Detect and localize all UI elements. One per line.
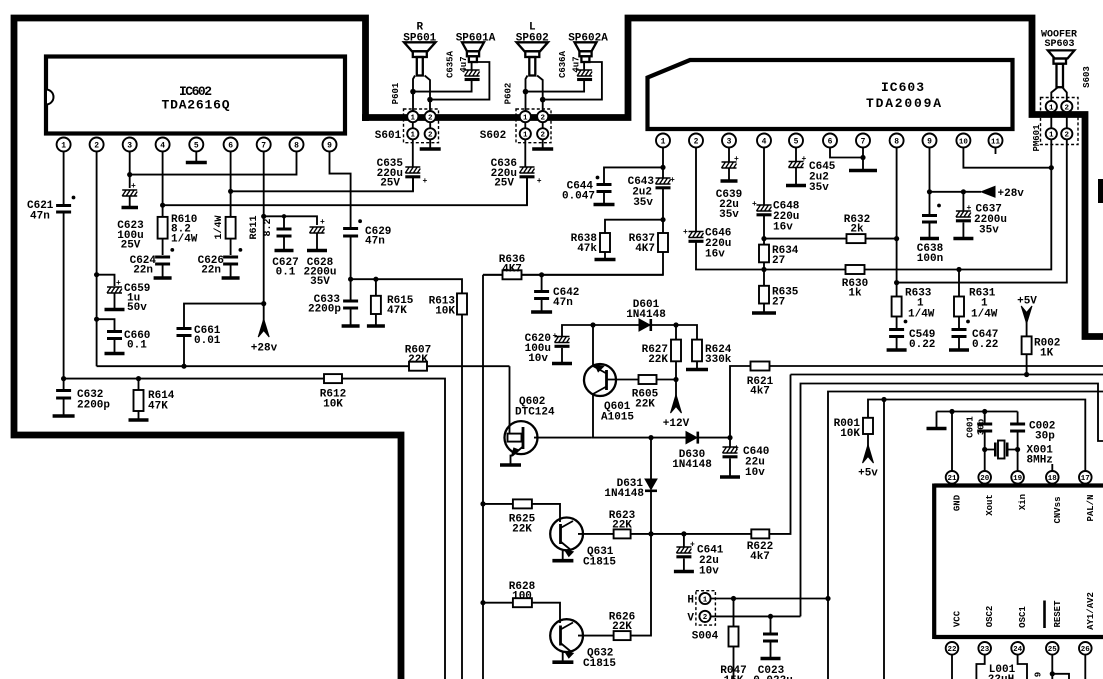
resistor R630 1k [842,265,868,300]
connector S004 [687,591,718,643]
pin 23 OSC2 [976,606,995,679]
wire lower bus C632 to x445 column [64,379,445,679]
pin 26 AY1/AV2 [1079,592,1096,679]
svg-text:22uH: 22uH [988,674,1014,679]
wire R613 column down to bottom [461,315,463,679]
resistor R628 100 [483,581,560,623]
capacitor C621 47n [27,196,75,223]
resistor R632 2k [764,214,897,243]
capacitor C647 0.22 [949,329,998,351]
connector S602 [480,128,549,142]
node C637 tap [961,189,966,194]
op-amp IC603 TDA2009A body [648,60,1013,129]
node SP602 lead taps [523,89,529,95]
wire R607 line from pin2 corner [97,365,510,367]
svg-text:22: 22 [947,646,957,654]
capacitor C023 0.022u [753,616,793,679]
svg-text:Xout: Xout [985,494,995,516]
svg-text:4K7: 4K7 [502,264,522,276]
pin 11 IC603 [989,134,1003,155]
svg-text:22K: 22K [648,354,668,366]
svg-text:2k: 2k [850,224,864,236]
svg-text:2: 2 [694,138,699,147]
wire pin5 to ground [195,152,197,162]
svg-text:C635A: C635A [446,50,456,78]
ground pin5 [186,161,207,165]
svg-text:22K: 22K [612,520,632,532]
capacitor C626 22n [198,248,243,278]
svg-text:+5v: +5v [858,468,878,480]
svg-text:35v: 35v [633,197,653,209]
wire Q601/Q602 emitter rail [592,437,730,439]
wire S004 V line [711,615,801,617]
wire bus line5 y399.5 to pin17 [868,400,1085,471]
wire bus line2 y374.5 [791,374,1103,376]
svg-text:GND: GND [953,494,963,511]
svg-text:1/4W: 1/4W [908,309,935,321]
connector PM601 [1032,124,1072,152]
capacitor C659 1u 50v [94,272,150,314]
svg-text:C001: C001 [966,416,976,438]
resistor R627 22K [642,325,681,380]
svg-text:1: 1 [523,132,528,140]
transistor Q601 A1015 [584,325,634,438]
svg-text:35v: 35v [719,209,739,221]
resistor R611 8.2 1/4W [213,215,274,239]
svg-text:8.2: 8.2 [263,218,274,236]
ic U001 microcontroller body [934,484,1103,640]
svg-text:DTC124: DTC124 [515,407,555,419]
wire SP602A loop wires [526,62,602,100]
capacitor C661 0.01 [177,325,221,366]
svg-text:1N4148: 1N4148 [626,309,666,321]
svg-text:OSC1: OSC1 [1018,606,1028,628]
svg-text:1/4W: 1/4W [171,234,198,246]
wire SP601A loop wires [413,62,489,100]
wire thick chassis harness left/top/bottom [14,18,401,679]
node R002 junction [1024,372,1029,377]
wire PM601-2 return line [897,139,1067,282]
node C641 junction [681,531,686,536]
svg-text:20: 20 [980,475,990,483]
svg-text:25V: 25V [380,178,400,190]
svg-text:47n: 47n [30,211,50,223]
svg-text:1/4W: 1/4W [971,309,998,321]
pin 6 IC603 [823,134,837,148]
node pin7 cap branch [261,214,266,219]
svg-text:0.22: 0.22 [972,339,998,351]
pin 2 IC602 [90,138,104,152]
capacitor C646 220u 16v [683,228,731,261]
svg-text:C636A: C636A [558,50,568,78]
pin 6 IC602 [224,138,238,152]
svg-text:P601: P601 [391,82,401,104]
svg-text:S602: S602 [480,130,506,142]
wire pin4 down through R610 [162,152,164,256]
resistor R626 22K [609,534,651,640]
node C640 junction [727,435,732,440]
svg-text:2: 2 [540,132,545,140]
svg-text:10K: 10K [323,399,343,411]
wire pin3 to C639 [728,148,730,163]
svg-text:9: 9 [1034,672,1044,677]
svg-text:+: + [752,200,757,209]
svg-text:+: + [802,155,807,164]
pin 1 IC602 [57,138,71,152]
svg-text:TDA2616Q: TDA2616Q [162,98,231,113]
wire pin6 down through R611 [230,152,232,256]
capacitor C623 100u 25V [117,182,144,252]
node crystal left [982,447,987,452]
svg-text:0.22: 0.22 [909,339,935,351]
svg-text:10v: 10v [528,353,548,365]
svg-text:2: 2 [1065,132,1070,140]
svg-text:22K: 22K [635,399,655,411]
svg-text:1K: 1K [1040,348,1054,360]
svg-text:A1015: A1015 [601,412,634,424]
node R638 tap [660,217,665,222]
node pin8 PM601-2 line junction [894,280,899,285]
wire S603-PM601 stubs [1051,112,1067,128]
wire bus line4 y391.5 with H drop [828,392,1103,679]
svg-text:330k: 330k [705,354,732,366]
crystal X001 8MHz [985,441,1054,467]
svg-text:35V: 35V [310,276,330,288]
pin 8 IC603 [890,134,904,148]
svg-text:P602: P602 [504,83,514,105]
power +12V arrow [663,380,690,431]
svg-text:S601: S601 [375,130,402,142]
capacitor C641 22u 10v [674,534,724,578]
svg-text:OSC2: OSC2 [985,606,995,628]
node R625 column junction [480,501,485,506]
svg-text:2200p: 2200p [77,400,110,412]
capacitor C633 2200p [308,279,360,326]
svg-text:0.1: 0.1 [127,340,147,352]
node R614 junction [136,376,141,381]
svg-text:+: + [690,541,695,550]
pin 1 IC603 [656,134,670,148]
svg-text:30p: 30p [977,419,987,435]
resistor R607 22K [405,345,431,371]
resistor R613 10K [429,293,467,317]
svg-text:22n: 22n [201,265,221,277]
capacitor C644 0.047 [562,167,663,204]
ground R635 [752,311,776,315]
svg-text:35v: 35v [979,225,999,237]
wire pin3 to junction [129,152,131,189]
resistor R633 1 1/4W [892,288,935,324]
svg-text:+: + [683,228,688,237]
svg-text:30p: 30p [1035,431,1055,443]
resistor R614 47K [129,379,175,420]
pin 21 GND [946,471,963,511]
node C644 tap [660,165,665,170]
resistor R621 4k7 [730,362,1103,438]
svg-text:24: 24 [1013,646,1023,654]
svg-text:19: 19 [1013,475,1023,483]
svg-text:2: 2 [540,114,545,122]
transistor Q632 C1815 [550,619,616,670]
svg-text:22K: 22K [612,621,632,633]
pin 8 IC602 [290,138,304,152]
resistor R625 22K [483,499,560,535]
wire R636 line to R607 corner column [483,274,663,276]
svg-text:VCC: VCC [953,610,963,627]
svg-text:2200p: 2200p [308,304,341,316]
svg-text:1: 1 [661,138,666,147]
svg-text:5: 5 [794,138,799,147]
svg-text:4: 4 [160,142,165,151]
svg-text:16v: 16v [705,249,725,261]
pin 9 IC602 [323,138,337,152]
svg-text:10v: 10v [745,467,765,479]
svg-text:8: 8 [894,138,899,147]
capacitor C636A 4u7 [558,50,592,79]
svg-text:47n: 47n [553,297,573,309]
svg-text:15K: 15K [724,675,744,679]
resistor R612 10K [320,374,346,410]
capacitor C001 30p [966,412,993,471]
connector P602 [504,83,552,143]
svg-text:2: 2 [1065,104,1070,112]
ground S601 pin2 [429,139,431,147]
wire pin9 jog to C629 [330,152,351,228]
svg-text:1: 1 [703,596,708,604]
pin 4 IC603 [757,134,771,148]
wire pin4 chain [763,148,765,312]
diode D601 1N4148 [626,299,666,331]
svg-text:1N4148: 1N4148 [604,488,644,500]
svg-text:+: + [423,177,428,186]
svg-text:4u7: 4u7 [572,56,582,72]
wire D601 line [593,324,676,326]
svg-text:5: 5 [194,142,199,151]
svg-text:25: 25 [1048,646,1058,654]
svg-text:+28v: +28v [998,188,1025,200]
svg-text:10: 10 [959,138,969,146]
wire pin2 down to lower bus [96,152,98,367]
svg-text:Xin: Xin [1018,494,1028,510]
node R632 tap [761,236,766,241]
svg-text:16v: 16v [773,222,793,234]
resistor R001 10K [834,418,873,440]
node C001 tap [982,409,987,414]
capacitor C637 2200u 35v [953,192,1007,239]
svg-text:18: 18 [1048,475,1058,483]
svg-text:1N4148: 1N4148 [672,459,712,471]
capacitor C648 220u 16v [752,200,800,234]
wire P602-S602 stubs [525,122,542,128]
wire pin1 to C621 to bottom bus [63,152,65,379]
resistor R624 330k [676,325,732,370]
resistor R638 47k [571,220,663,260]
wire thick chassis harness speaker bay and right side [362,18,1103,337]
pin 18 CNVss [1046,464,1063,524]
svg-text:25V: 25V [121,240,141,252]
node D631 top junction [648,435,653,440]
svg-text:17: 17 [1081,475,1090,483]
svg-text:2: 2 [428,132,433,140]
capacitor C624 22n [130,248,175,278]
svg-text:4k7: 4k7 [750,386,770,398]
wire pin10 to PM601-1 [963,148,1051,168]
svg-text:+: + [537,177,542,186]
wire pin2 chain [696,148,1051,270]
connector P601 [391,82,439,143]
svg-text:27: 27 [772,255,785,267]
svg-text:22K: 22K [408,354,428,366]
resistor R610 8.2 1/4W [158,214,198,246]
node H line to column [825,596,830,601]
capacitor C632 2200p [53,379,111,416]
node pin8 R632 junction [894,236,899,241]
capacitor C660 0.1 [94,317,150,354]
resistor R615 47K [367,279,414,326]
node C632 junction [61,376,66,381]
svg-text:4k7: 4k7 [750,551,770,563]
svg-text:11: 11 [991,138,1001,146]
wire S004 H line [711,598,828,600]
svg-text:1k: 1k [848,288,862,300]
node R047 tap [731,596,736,601]
node C023 tap [768,614,773,619]
svg-text:50v: 50v [127,302,147,314]
svg-text:47K: 47K [148,401,168,413]
svg-text:21: 21 [947,475,957,483]
svg-text:100n: 100n [917,253,943,265]
svg-text:0.047: 0.047 [562,191,595,203]
capacitor C635 220u 25V [377,139,428,191]
svg-text:TDA2009A: TDA2009A [866,96,942,111]
node R628 column junction [480,600,485,605]
svg-text:SP603: SP603 [1044,39,1074,50]
resistor R635 27 [759,286,799,309]
capacitor C627 0.1 [272,229,298,279]
speaker SP601 R [403,22,436,112]
resistor R634 27 [759,245,799,267]
wire thick stub at right edge [1098,179,1103,203]
svg-text:25V: 25V [494,178,514,190]
svg-text:AY1/AV2: AY1/AV2 [1086,592,1096,630]
wire bus line3 y383.5 with V drop [801,384,1103,617]
svg-text:23: 23 [980,646,990,654]
speaker SP602A [568,33,608,63]
svg-text:6: 6 [828,138,833,147]
pin 5 IC603 [789,134,803,148]
op-amp IC602 TDA2616Q body [46,57,345,134]
wire pin8 to pin3 line [130,152,297,175]
power +28v feed at pin9 [930,186,1025,200]
capacitor C640 22u 10v [720,438,769,479]
pin 4 IC602 [156,138,170,152]
svg-text:35v: 35v [809,182,829,194]
node PM601-1 junction [1049,165,1054,170]
resistor R631 1 1/4W [954,267,998,328]
capacitor C628 2200u 35V [303,218,336,288]
capacitor C549 0.22 [887,329,936,351]
svg-text:47K: 47K [387,305,407,317]
svg-text:V: V [687,613,694,625]
wire pin21 column [951,412,953,471]
inductor L001 22uH [988,664,1044,679]
capacitor C639 22u 35v [716,155,742,221]
svg-text:1/4W: 1/4W [213,215,225,239]
svg-text:6: 6 [228,142,233,151]
wire pin6 branch to C635 [231,178,413,191]
power +5v arrow at R001 [858,434,878,480]
connector S603 [1041,98,1079,145]
pin 25 RESET [1045,600,1070,679]
svg-text:1: 1 [411,114,416,122]
node C633 tap [348,277,353,282]
svg-text:+12V: +12V [663,418,690,430]
capacitor C629 47n [343,219,391,279]
wire pin7 down to +28v [263,152,265,323]
svg-text:PAL/N: PAL/N [1086,494,1096,521]
wire pin8 chain down [896,148,898,329]
capacitor C645 2u2 35v [786,155,836,194]
svg-text:22n: 22n [133,265,153,277]
capacitor C635A 4u7 [446,50,480,79]
capacitor C620 100u 10v [525,325,593,365]
svg-text:22K: 22K [512,524,532,536]
capacitor C642 47n [531,275,579,312]
svg-text:10v: 10v [699,566,719,578]
node D601 right junction [673,322,678,327]
svg-text:R611: R611 [249,215,260,239]
pin 5 IC602 [189,138,203,152]
pin 7 IC602 [257,138,271,152]
node R623/D631 junction [648,531,653,536]
pin 17 PAL/N [1079,471,1096,522]
node pin9 +28v junction [927,189,932,194]
node C642 tap [539,272,544,277]
resistor R605 22K [607,375,677,411]
svg-text:9: 9 [327,142,332,151]
svg-text:PM601: PM601 [1032,124,1042,152]
svg-text:C1815: C1815 [583,557,616,569]
svg-text:S004: S004 [692,631,719,643]
node pin3/pin8 junction [127,172,132,177]
capacitor C636 220u 25V [491,139,542,205]
svg-text:+5V: +5V [1017,296,1037,308]
wire pin5 to C645 [795,148,797,162]
pin 19 Xin [1011,471,1028,510]
svg-text:3: 3 [127,142,132,151]
svg-text:H: H [687,595,694,607]
svg-text:7: 7 [861,138,866,147]
pin 22 VCC [946,610,963,679]
svg-text:+: + [670,176,675,185]
node pin21 tap [949,409,954,414]
svg-text:4: 4 [762,138,767,147]
node R605/R627 junction [673,377,678,382]
transistor Q602 DTC124 [500,396,592,465]
svg-text:26: 26 [1081,646,1091,654]
node crystal right [1015,447,1020,452]
pin 3 IC603 [722,134,736,148]
svg-text:RESET: RESET [1053,600,1063,628]
capacitor C643 2u2 35v [628,176,675,209]
svg-text:100: 100 [512,591,532,603]
wire R607 to Q602 base [509,366,511,433]
wire C629 bottom bus to R613 column [351,279,462,293]
ground S602 pin2 [542,139,544,147]
svg-text:2: 2 [703,614,708,622]
power +28v arrow at pin7 [251,319,278,355]
svg-text:10K: 10K [840,428,860,440]
